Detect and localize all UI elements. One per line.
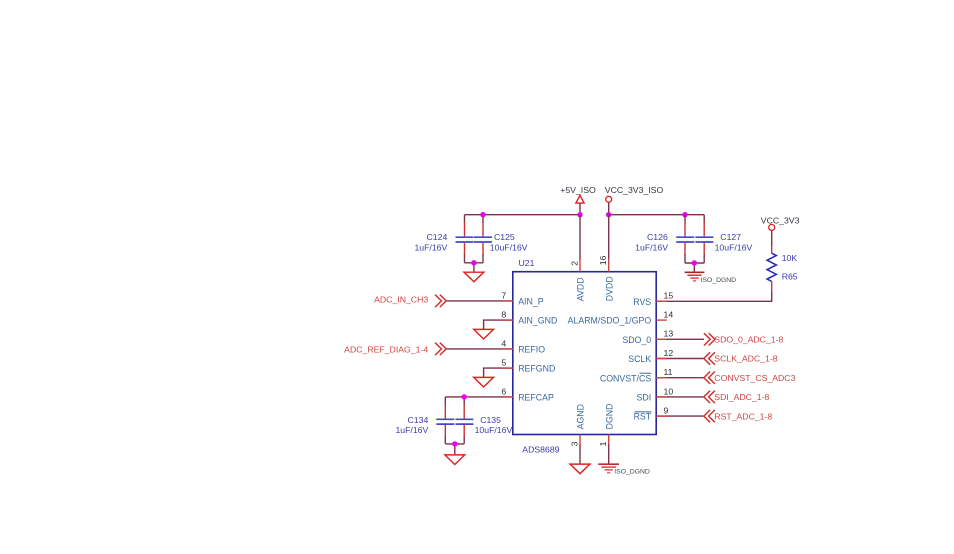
- svg-text:10: 10: [664, 386, 674, 396]
- svg-text:C127: C127: [720, 232, 741, 242]
- svg-text:SDO_0_ADC_1-8: SDO_0_ADC_1-8: [714, 335, 783, 345]
- pin 14 ALARM/SDO_1/GPO stub: [656, 319, 667, 321]
- svg-text:REFIO: REFIO: [518, 345, 545, 355]
- svg-text:10uF/16V: 10uF/16V: [715, 242, 753, 252]
- svg-text:1uF/16V: 1uF/16V: [414, 242, 447, 252]
- ground below AGND: [570, 464, 590, 474]
- capacitor C126: [635, 215, 694, 263]
- svg-text:REFGND: REFGND: [518, 364, 555, 374]
- svg-text:C125: C125: [494, 232, 515, 242]
- pin 4 REFIO wire: [446, 348, 513, 350]
- pin 10 SDI wire: [656, 396, 704, 398]
- wire RVS to R65: [656, 292, 772, 301]
- pin 12 SCLK wire: [656, 358, 704, 360]
- port ADC_REF_DIAG_1-4: [344, 343, 446, 355]
- port SDO_0_ADC_1-8: [704, 333, 784, 345]
- junction dot C124/C125 bottom: [471, 260, 476, 265]
- pin 11 CONVST/CS wire: [656, 377, 704, 379]
- svg-text:SCLK_ADC_1-8: SCLK_ADC_1-8: [714, 354, 777, 364]
- port RST_ADC_1-8: [704, 410, 773, 422]
- pin 16 DVDD: [608, 215, 610, 260]
- svg-text:AGND: AGND: [576, 404, 586, 429]
- svg-text:SDI: SDI: [637, 393, 652, 403]
- junction dot C126/C127 bottom: [692, 260, 697, 265]
- svg-text:10uF/16V: 10uF/16V: [490, 242, 528, 252]
- svg-text:11: 11: [664, 367, 673, 377]
- wire stub to ISO_DGND: [693, 263, 695, 272]
- junction dot C125 top: [480, 212, 485, 217]
- svg-text:ADS8689: ADS8689: [522, 444, 559, 454]
- pin 15 RVS: [656, 300, 666, 302]
- resistor R65: [767, 245, 798, 293]
- svg-text:CONVST/CS: CONVST/CS: [600, 373, 651, 383]
- svg-text:C126: C126: [647, 232, 668, 242]
- svg-text:ALARM/SDO_1/GPO: ALARM/SDO_1/GPO: [568, 316, 652, 326]
- pin 6 REFCAP wire: [445, 396, 513, 398]
- junction dot AVDD rail: [577, 212, 582, 217]
- ground below C134/C135: [445, 455, 465, 465]
- svg-text:ADC_REF_DIAG_1-4: ADC_REF_DIAG_1-4: [344, 344, 428, 354]
- svg-text:RVS: RVS: [633, 297, 651, 307]
- svg-text:ISO_DGND: ISO_DGND: [701, 277, 737, 284]
- pin 2 AVDD: [579, 215, 581, 260]
- svg-text:C124: C124: [427, 232, 448, 242]
- svg-text:U21: U21: [519, 258, 535, 268]
- power symbol +5V_ISO: [560, 185, 596, 215]
- svg-text:VCC_3V3_ISO: VCC_3V3_ISO: [605, 185, 664, 195]
- pin 3 AGND to ground: [579, 435, 581, 446]
- svg-text:8: 8: [501, 310, 506, 320]
- ground ISO_DGND below C126/C127: [685, 272, 737, 284]
- svg-text:1uF/16V: 1uF/16V: [635, 242, 668, 252]
- junction dot DVDD rail: [606, 212, 611, 217]
- svg-text:CONVST_CS_ADC3: CONVST_CS_ADC3: [714, 373, 795, 383]
- wire bottom of C134/C135: [445, 443, 464, 445]
- svg-text:DVDD: DVDD: [604, 276, 614, 301]
- ground ISO_DGND below DGND: [598, 464, 650, 476]
- svg-text:R65: R65: [782, 271, 798, 281]
- svg-text:REFCAP: REFCAP: [518, 393, 554, 403]
- svg-text:SDI_ADC_1-8: SDI_ADC_1-8: [714, 392, 769, 402]
- port SCLK_ADC_1-8: [704, 352, 778, 364]
- svg-text:4: 4: [501, 338, 506, 348]
- junction dot C126 top: [682, 212, 687, 217]
- port ADC_IN_CH3: [374, 294, 446, 307]
- capacitor C134: [395, 397, 454, 444]
- svg-text:AIN_P: AIN_P: [518, 297, 544, 307]
- pin 8 AIN_GND wire to ground: [484, 320, 513, 329]
- junction dot REFCAP: [462, 394, 467, 399]
- ground below pin 8: [474, 329, 494, 339]
- ground below pin 5: [474, 377, 494, 387]
- capacitor C124: [414, 215, 473, 263]
- wire stub to ground: [454, 444, 456, 455]
- svg-text:7: 7: [501, 290, 506, 300]
- wire stub to ground: [473, 263, 475, 272]
- wire top-left rail: [465, 214, 581, 216]
- port CONVST_CS_ADC3: [704, 372, 796, 384]
- svg-text:14: 14: [664, 310, 674, 320]
- svg-text:SDO_0: SDO_0: [622, 335, 651, 345]
- junction dot C134/C135 bottom: [452, 441, 457, 446]
- svg-text:+5V_ISO: +5V_ISO: [560, 185, 596, 195]
- svg-text:C134: C134: [408, 415, 429, 425]
- svg-text:C135: C135: [480, 415, 501, 425]
- svg-text:1uF/16V: 1uF/16V: [395, 425, 428, 435]
- svg-text:10K: 10K: [782, 253, 798, 263]
- ground below C124/C125: [464, 272, 484, 282]
- svg-text:RST: RST: [634, 412, 652, 422]
- svg-text:VCC_3V3: VCC_3V3: [761, 215, 800, 225]
- svg-text:AIN_GND: AIN_GND: [518, 316, 557, 326]
- wire top-right rail: [609, 214, 705, 216]
- svg-text:9: 9: [664, 406, 669, 416]
- pin 9 RST wire: [656, 415, 704, 417]
- capacitor C135: [455, 397, 512, 444]
- capacitor C125: [474, 215, 528, 263]
- power symbol VCC_3V3_ISO: [605, 185, 664, 215]
- pin 13 SDO_0 wire: [656, 338, 704, 340]
- svg-text:1: 1: [598, 441, 608, 446]
- pin 5 REFGND wire to ground: [484, 368, 513, 377]
- pin 7 AIN_P wire: [446, 300, 513, 302]
- IC U21 ADS8689: [513, 272, 656, 435]
- svg-text:5: 5: [501, 358, 506, 368]
- svg-text:15: 15: [664, 291, 674, 301]
- svg-text:RST_ADC_1-8: RST_ADC_1-8: [714, 411, 772, 421]
- svg-text:SCLK: SCLK: [628, 354, 651, 364]
- svg-text:16: 16: [598, 255, 608, 265]
- capacitor C127: [695, 215, 752, 263]
- svg-text:AVDD: AVDD: [576, 277, 586, 301]
- svg-text:2: 2: [570, 261, 580, 266]
- pin 1 DGND to ISO_DGND: [608, 435, 610, 446]
- svg-text:DGND: DGND: [604, 403, 614, 429]
- wire bottom of C124/C125: [465, 262, 484, 264]
- wire bottom of C126/C127: [685, 262, 704, 264]
- svg-text:12: 12: [664, 348, 674, 358]
- svg-text:ISO_DGND: ISO_DGND: [614, 469, 650, 476]
- svg-text:3: 3: [570, 441, 580, 446]
- svg-text:13: 13: [664, 329, 674, 339]
- svg-text:ADC_IN_CH3: ADC_IN_CH3: [374, 294, 428, 304]
- svg-text:6: 6: [501, 386, 506, 396]
- port SDI_ADC_1-8: [704, 391, 770, 403]
- svg-text:10uF/16V: 10uF/16V: [475, 425, 513, 435]
- power symbol VCC_3V3: [761, 215, 800, 246]
